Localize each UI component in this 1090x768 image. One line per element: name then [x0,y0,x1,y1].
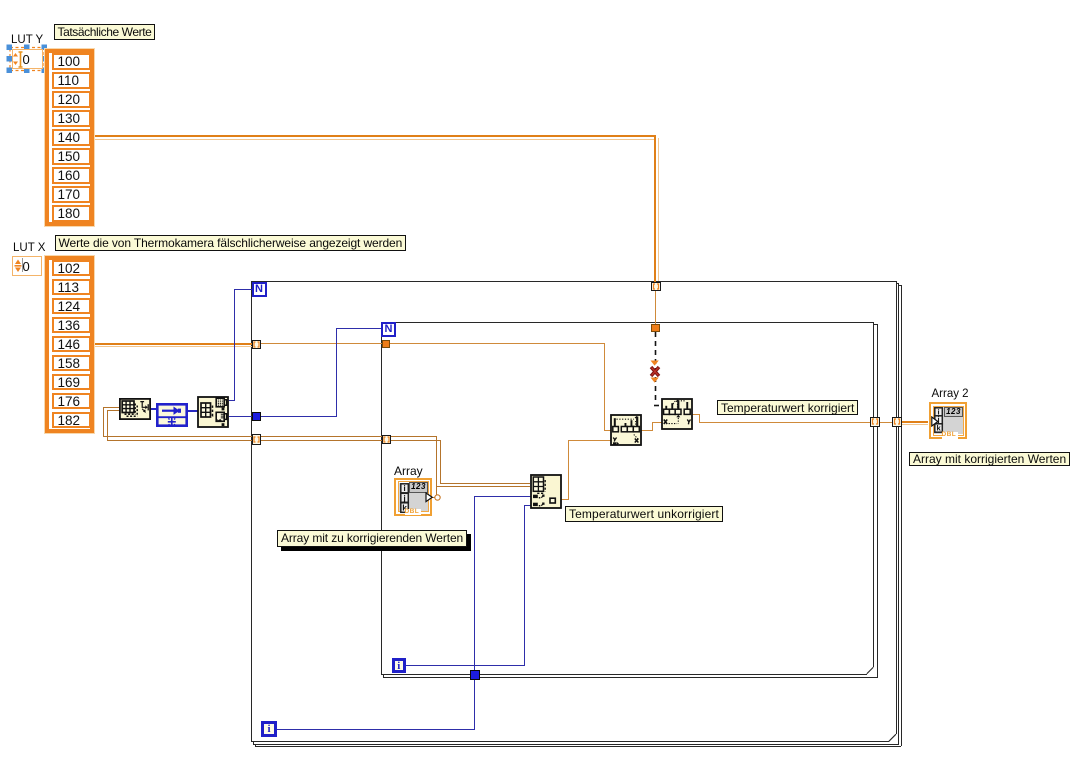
inner i terminal [392,658,407,673]
tunnel: inner bottom solid blue [470,670,480,680]
inner N terminal [381,322,396,337]
tunnel: outer left solid blue [252,412,261,421]
Array 2 indicator [929,402,967,439]
wire LUT Y vertical to tunnel [654,135,656,282]
broken wire dashed [648,330,666,410]
blue wire iconA-iconB [150,408,157,410]
svg-text:i: i [403,483,405,493]
label: Array mit zu korrigierenden Werten (with shadow) [277,530,467,547]
LUT Y index box [12,49,43,69]
wire icon1 to icon2 [641,430,653,431]
outer N terminal [252,282,267,297]
icon C [197,396,229,428]
Array constant [394,478,432,516]
icon A: array size [119,398,151,420]
label: Werte die von Thermokamera [55,235,407,252]
wire icon2 output to tunnels [692,414,700,415]
2D array wire: C-shape into icon A [103,407,120,408]
svg-text:j: j [402,492,405,502]
wire LUT Y horizontal [93,135,656,137]
tunnel: inner top solid orange [651,324,660,333]
label: Tatsaechliche Werte [54,24,156,40]
outer for-loop frame [251,281,897,282]
2D array wire inside outer loop [259,436,383,437]
blue wire iconB-iconC [187,410,198,412]
blue wire inner i to icon3 [406,665,524,666]
LUT Y array [45,49,94,226]
LUT X index box [12,256,42,276]
wire LUT X to outer wall [93,343,252,345]
icon2 Interpolate 1D Array [661,398,693,430]
label: Temperaturwert unkorrigiert [565,506,723,522]
wire scalar LUT Y tunnel down [655,290,656,324]
inner loop fold bottom-right [865,665,876,676]
2D array wire inside inner loop to junction and icon3 [389,436,437,437]
outer i terminal [261,721,277,737]
Array constant label [394,464,423,478]
label: Temperaturwert korrigiert [717,400,858,415]
icon B [156,403,188,427]
wire array out to Array 2 [901,421,928,423]
wire scalar inner: LUT X value to icon1 [389,343,605,344]
tunnel: inner right [870,417,880,427]
blue wire tunnel to inner N [260,416,337,417]
LUT X label [13,242,45,254]
wire icon3 output to icon1 y-input [561,499,569,500]
blue wire bottom tunnel up to icon3 [474,496,475,670]
inner loop corner steps [873,324,878,325]
inner for-loop frame [381,322,874,323]
tunnel: outer left (LUT X) [252,340,261,349]
outer loop fold bottom-right [887,732,899,744]
tunnel: outer right [892,417,902,427]
blue wire iconC bottom output to tunnel [229,416,252,417]
tunnel: inner left solid orange [382,340,391,349]
tunnel: outer top (LUT Y) [651,282,661,292]
icon1 Threshold 1D Array [610,414,642,446]
blue wire outer i to bottom tunnel [277,729,475,730]
LUT X array [45,256,94,433]
LUT Y index selection handles [5,43,49,75]
blue wire iconC top output to outer N [229,400,235,401]
outer loop corner steps [896,283,900,284]
tunnel: outer left 2D array [252,434,261,445]
junction dot [429,489,443,503]
broken wire markers: triangles and red X [646,356,664,386]
LUT Y label [11,34,43,46]
wire scalar outer to inner wall [259,343,383,344]
Array 2 indicator label [932,388,969,400]
label: Array mit korrigierten Werten [909,452,1070,467]
icon3 Index Array [530,474,562,509]
wire stub into junction [431,497,436,498]
tunnel: inner left 2D array [382,435,391,444]
